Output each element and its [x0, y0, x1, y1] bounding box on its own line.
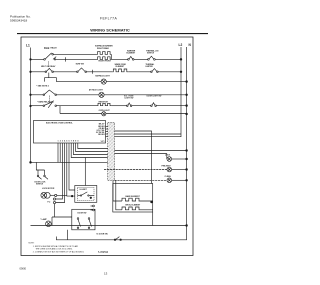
wire band to L2 a — [115, 133, 182, 135]
label see note — [36, 85, 48, 87]
wire row2 mid1 — [53, 71, 77, 73]
op box EOC — [34, 121, 106, 144]
label resistor — [99, 101, 109, 103]
label warmer element — [127, 49, 136, 54]
svg-text:LOCK MOTOR: LOCK MOTOR — [42, 188, 55, 190]
svg-text:SWITCH: SWITCH — [36, 183, 44, 185]
svg-text:LIGHT SW: LIGHT SW — [125, 97, 134, 99]
wire row4 to N — [104, 94, 187, 96]
svg-text:AT RACK LIGHT: AT RACK LIGHT — [89, 88, 104, 91]
svg-text:PRE-HEAT: PRE-HEAT — [162, 164, 172, 167]
svg-text:DLB: DLB — [44, 46, 49, 50]
resistor element right front — [97, 57, 112, 60]
wire row1 lower branch — [56, 58, 97, 60]
wire L1 feed horizontal — [31, 161, 108, 163]
wire band to lamp1 — [115, 153, 167, 155]
svg-text:* SEE NOTE 2: * SEE NOTE 2 — [36, 85, 48, 87]
switch bottom door — [114, 239, 116, 241]
switch row2 b — [77, 71, 79, 73]
EOC right pin wires — [106, 126, 108, 128]
svg-text:13: 13 — [104, 272, 108, 276]
wire terminal to sensor — [57, 195, 67, 197]
svg-text:SURFACE LIGHT: SURFACE LIGHT — [95, 75, 110, 78]
switch row5 — [43, 105, 45, 107]
connector sensor lower pins — [93, 205, 95, 207]
label warm zone element — [115, 63, 127, 68]
wire lamp2 row — [104, 169, 167, 171]
resistor row5 — [97, 103, 111, 105]
switch row5 a — [127, 105, 129, 107]
wire row2 mid2 — [87, 71, 113, 73]
label door switch bottom — [97, 234, 109, 236]
switch warmer — [128, 59, 130, 61]
wire row5 mid — [57, 105, 98, 107]
label row2 limiter — [146, 63, 156, 68]
gang link rows45 — [49, 96, 51, 104]
wire row5 to N — [156, 105, 186, 107]
svg-text:FEFL77A: FEFL77A — [100, 16, 117, 20]
wire row1 lower from L1 — [31, 58, 45, 60]
header text — [10, 15, 130, 33]
switch sensor hi-limit — [77, 195, 80, 197]
box elements — [113, 184, 153, 213]
wire row5 from L1 — [31, 105, 44, 107]
svg-text:RELAY: RELAY — [51, 47, 58, 50]
wire row2 mid3 — [128, 71, 151, 73]
switch thermal limiter — [148, 59, 150, 61]
wire join elements — [110, 54, 112, 59]
EOC bottom pins — [58, 143, 78, 146]
wire bottom lamp row — [31, 225, 187, 227]
svg-text:WIRING SCHEMATIC: WIRING SCHEMATIC — [90, 27, 130, 32]
wire row6 to N — [106, 113, 187, 115]
wire row1 to L2 — [155, 58, 181, 60]
connector hatch band — [108, 123, 115, 181]
svg-text:* LAMP: * LAMP — [40, 218, 47, 221]
switch assembly a — [77, 218, 79, 220]
svg-text:ELEMENT: ELEMENT — [127, 53, 136, 55]
wire row3 to N — [106, 81, 186, 83]
wire band to L2 b — [115, 136, 182, 138]
wire lock box riser — [66, 230, 68, 240]
EOC pin labels right — [96, 124, 105, 143]
switch door lock b — [44, 170, 46, 175]
resistor broil element — [122, 207, 153, 210]
lamp preheat — [167, 167, 172, 172]
svg-text:L1: L1 — [26, 43, 30, 47]
lamp oven indicator — [99, 92, 104, 97]
svg-text:P-2: P-2 — [48, 202, 51, 204]
svg-text:THE OVEN DOOR AND LOCK IS CLOS: THE OVEN DOOR AND LOCK IS CLOSED. — [36, 247, 74, 250]
label surface burner right — [95, 45, 113, 50]
label door lock switch — [35, 181, 47, 185]
svg-text:V-P1: V-P1 — [101, 141, 105, 143]
wire band to N upper — [115, 150, 187, 152]
wire sensor top feed — [84, 158, 86, 186]
wire row2 from L1 — [31, 71, 46, 73]
resistor element right rear — [97, 52, 112, 55]
svg-text:BAKE ELEMENT: BAKE ELEMENT — [126, 195, 141, 198]
switch DLB contact — [44, 59, 46, 61]
label oven light — [99, 110, 111, 112]
svg-text:ELECTRONIC OVEN CONTROL: ELECTRONIC OVEN CONTROL — [46, 123, 74, 125]
wire row6 drop — [59, 106, 61, 114]
switch assembly b — [88, 218, 90, 220]
lamp clean — [167, 178, 172, 183]
EOC pin numbers — [58, 140, 80, 143]
svg-text:LOCK: LOCK — [165, 155, 171, 157]
wire row3 crossover hump — [45, 78, 57, 82]
label lock light — [165, 155, 171, 157]
svg-text:SURF SW: SURF SW — [76, 64, 85, 66]
label right front — [99, 61, 112, 63]
svg-text:NOTE:: NOTE: — [29, 242, 35, 244]
wire L1 bus — [30, 48, 32, 163]
motor lock — [41, 192, 47, 198]
box door lock assembly — [72, 209, 95, 230]
svg-text:LIMITER: LIMITER — [146, 66, 154, 68]
svg-text:RIGHT REAR: RIGHT REAR — [97, 47, 109, 50]
wire row5 mid2 — [111, 105, 127, 107]
switch row2 a — [45, 71, 47, 73]
box oven sensor — [75, 186, 97, 203]
wire connector riser — [54, 204, 56, 217]
label row2 switch b — [76, 64, 85, 66]
switch row4 — [43, 94, 45, 96]
wire lamp3 row — [115, 179, 168, 181]
label clean light — [165, 175, 172, 178]
wire lock drop — [36, 162, 44, 170]
wire row2 tap to row3 bridge — [48, 73, 50, 78]
label row5 sw a — [124, 95, 134, 99]
svg-text:N. DOOR SW.: N. DOOR SW. — [97, 234, 109, 236]
label surface light — [95, 75, 110, 78]
svg-text:DOOR SW: DOOR SW — [78, 213, 87, 215]
wire element right drop — [152, 212, 154, 226]
junction tick row1 — [64, 57, 66, 61]
wire band bottom drop b — [116, 181, 122, 210]
label row4 switch — [37, 100, 54, 103]
svg-text:CLEAN: CLEAN — [165, 175, 172, 178]
wire bundle from EOC pins — [78, 146, 108, 149]
wire motor to terminal — [50, 194, 54, 196]
label preheat light — [162, 164, 172, 167]
wire band bottom drop a — [113, 181, 122, 202]
svg-text:BROIL ELEMENT: BROIL ELEMENT — [126, 205, 142, 207]
gang link dashed — [48, 62, 50, 68]
resistor bake element — [122, 198, 153, 201]
lamp oven — [46, 221, 52, 227]
wire band to relay drop — [115, 131, 152, 184]
svg-text:BK-WH: BK-WH — [98, 134, 105, 136]
note text block — [29, 242, 85, 253]
label lock motor — [42, 188, 55, 190]
svg-text:HI-LIMIT: HI-LIMIT — [80, 189, 88, 191]
svg-text:SWITCH: SWITCH — [147, 53, 155, 55]
junction tick row2 — [92, 70, 94, 74]
wire row1 to warmer switch — [111, 58, 128, 60]
switch door lock a — [37, 170, 39, 175]
wire row2 to L2 — [158, 71, 181, 73]
switch row2 limiter — [151, 71, 153, 73]
schematic border — [21, 37, 193, 256]
node L1 — [26, 43, 30, 47]
node N — [189, 43, 192, 47]
junction sensor left — [71, 195, 73, 197]
wire row4 to lamp — [57, 94, 99, 96]
lamp lock — [166, 154, 168, 160]
label oven indicator — [89, 88, 104, 91]
wire row4 from L1 — [31, 94, 44, 96]
svg-text:ELEMENT: ELEMENT — [116, 66, 125, 68]
wire row6 to lamp — [60, 113, 102, 115]
label thermal limiter — [146, 49, 159, 54]
label row5 sw b — [147, 95, 162, 97]
svg-text:5995343418: 5995343418 — [10, 19, 27, 23]
resistor warm zone element — [112, 69, 128, 72]
label oven lamp — [40, 218, 47, 221]
wire row1 upper branch — [53, 53, 96, 55]
wire row5 mid3 — [132, 105, 151, 107]
svg-text:DOOR LIGHT SW: DOOR LIGHT SW — [147, 95, 162, 97]
junction elements right — [151, 201, 153, 203]
label DLB relay — [44, 46, 57, 50]
svg-text:2. CONNECTOR NOT A IS NOT EMP: 2. CONNECTOR NOT A IS NOT EMPLOY OF ALL … — [33, 250, 85, 253]
svg-text:L2: L2 — [179, 43, 183, 47]
label broil element — [126, 205, 142, 207]
terminal dot — [55, 194, 57, 196]
label row2 switch — [41, 65, 56, 68]
svg-text:RIGHT FRONT: RIGHT FRONT — [99, 61, 112, 63]
svg-text:1234567890: 1234567890 — [58, 140, 80, 143]
node L2 — [179, 43, 183, 47]
header rule — [17, 33, 208, 35]
switch row5 b — [151, 105, 153, 107]
footer text — [20, 251, 109, 275]
label bake element — [126, 195, 141, 198]
wire N bus — [56, 47, 186, 240]
svg-text:09/00: 09/00 — [20, 267, 27, 271]
wire row3 to lamp — [56, 81, 101, 83]
wire row1 mid — [134, 58, 148, 60]
lamp oven light — [102, 112, 106, 116]
wire L2 bus — [180, 47, 182, 137]
svg-text:5-059596: 5-059596 — [98, 251, 109, 254]
connector pins left — [53, 198, 55, 200]
wire left to lock box — [52, 216, 72, 218]
lamp surface indicator — [101, 79, 106, 84]
